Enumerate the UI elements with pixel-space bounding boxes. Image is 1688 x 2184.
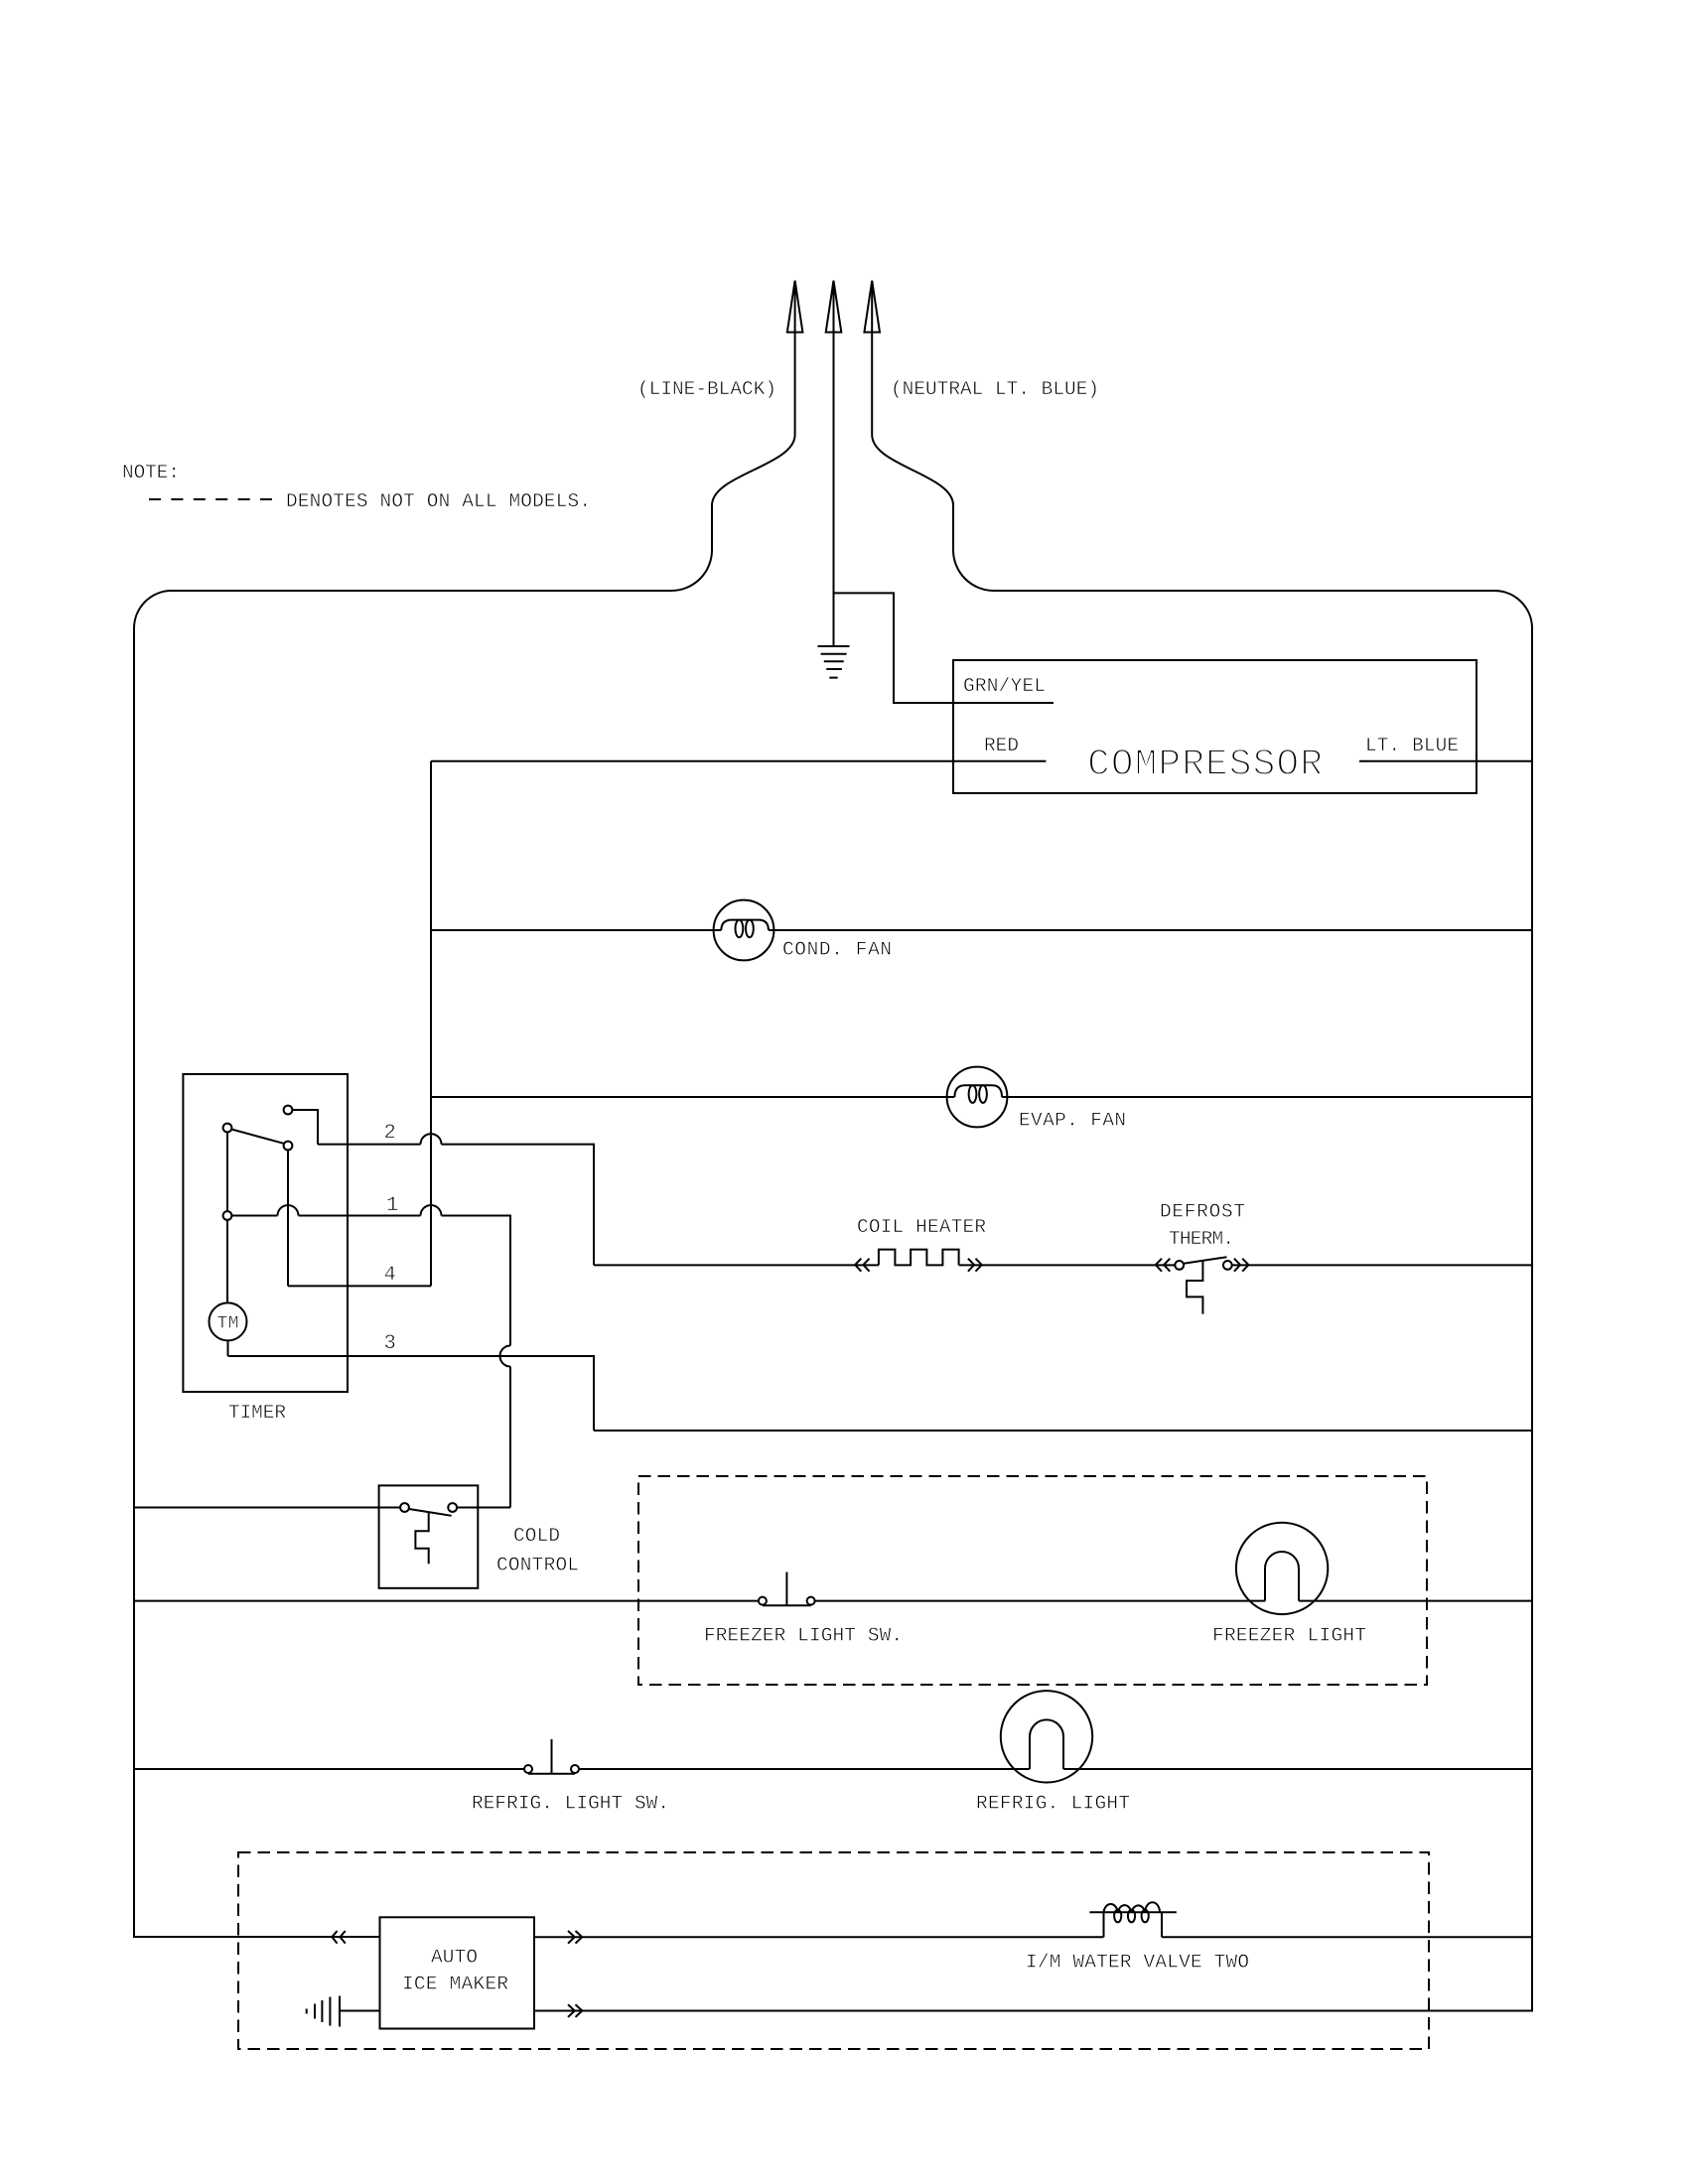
svg-text:COMPRESSOR: COMPRESSOR xyxy=(1087,744,1323,786)
svg-text:FREEZER LIGHT SW.: FREEZER LIGHT SW. xyxy=(704,1624,903,1646)
connector chevrons right xyxy=(968,1259,982,1272)
terminal left lower xyxy=(223,1211,232,1220)
wire red vertical xyxy=(430,761,432,1287)
cold control actuator xyxy=(415,1512,428,1564)
wire line-black cord xyxy=(671,281,795,591)
svg-text:REFRIG. LIGHT SW.: REFRIG. LIGHT SW. xyxy=(472,1792,669,1814)
arrowhead neutral xyxy=(864,281,880,333)
svg-text:(LINE-BLACK): (LINE-BLACK) xyxy=(637,378,776,400)
wire outer border left (line) xyxy=(134,591,671,1937)
wire outer border right (neutral bus) xyxy=(534,591,1532,2011)
wire heater row xyxy=(594,1264,1532,1266)
svg-text:COND. FAN: COND. FAN xyxy=(782,939,892,961)
wire freezer light row xyxy=(134,1600,1532,1602)
contact lower xyxy=(284,1142,293,1151)
arrowhead ground xyxy=(826,281,842,333)
dashed box freezer (not on all models) xyxy=(638,1476,1427,1685)
svg-text:NOTE:: NOTE: xyxy=(122,462,180,483)
cold control terminal right xyxy=(448,1503,457,1512)
motor EVAP. FAN xyxy=(947,1067,1008,1128)
wire contact down to wire 4 xyxy=(287,1150,289,1286)
svg-text:GRN/YEL: GRN/YEL xyxy=(963,675,1046,697)
wire refrig light row xyxy=(134,1768,1532,1770)
defrost therm actuator xyxy=(1187,1261,1202,1314)
wire ice maker ground xyxy=(340,2010,380,2012)
wire ice maker bottom out xyxy=(534,2010,1532,2012)
terminal left upper xyxy=(223,1124,232,1133)
hop wire1 over red vertical xyxy=(421,1205,442,1216)
switch arm timer xyxy=(231,1130,284,1144)
svg-text:LT. BLUE: LT. BLUE xyxy=(1365,735,1459,756)
wire 2 xyxy=(318,1145,594,1266)
freezer light sw contact left xyxy=(759,1597,767,1605)
wire grn/yel branch xyxy=(834,593,1055,703)
wire terminal top to wire 2 xyxy=(292,1110,318,1145)
compressor box xyxy=(953,660,1477,793)
svg-text:DEFROST: DEFROST xyxy=(1160,1201,1245,1223)
freezer light sw arm xyxy=(763,1604,811,1606)
svg-text:COIL HEATER: COIL HEATER xyxy=(857,1216,986,1238)
defrost therm contact right xyxy=(1223,1261,1232,1270)
motor COND. FAN xyxy=(714,900,774,961)
svg-text:COLD: COLD xyxy=(513,1525,560,1547)
ground xyxy=(818,646,850,678)
svg-text:3: 3 xyxy=(384,1332,396,1355)
svg-text:1: 1 xyxy=(386,1194,398,1217)
wire neutral cord xyxy=(872,281,994,591)
wire lt blue terminal xyxy=(1359,760,1532,762)
svg-text:FREEZER LIGHT: FREEZER LIGHT xyxy=(1212,1624,1366,1646)
svg-text:AUTO: AUTO xyxy=(431,1946,478,1968)
terminal top xyxy=(284,1106,293,1115)
hop wire1-vertical over wire 3 xyxy=(500,1346,511,1367)
connector chevrons ice maker out top xyxy=(568,1931,582,1944)
dashed legend line xyxy=(149,498,272,500)
connector chevrons defrost left xyxy=(1156,1259,1170,1272)
wire 3 xyxy=(228,1356,595,1431)
lamp FREEZER LIGHT xyxy=(1236,1523,1328,1614)
wire evap fan row xyxy=(431,1096,1532,1098)
svg-text:ICE MAKER: ICE MAKER xyxy=(402,1973,508,1994)
wire cold control row left xyxy=(134,1507,400,1509)
wire defrost return row xyxy=(594,1430,1532,1432)
defrost therm arm xyxy=(1184,1257,1226,1264)
svg-text:THERM.: THERM. xyxy=(1169,1228,1234,1250)
connector chevrons left xyxy=(855,1259,870,1272)
heater element COIL HEATER xyxy=(879,1250,959,1266)
connector chevrons ice maker in xyxy=(332,1931,346,1944)
hop wire1 over contact vertical xyxy=(278,1205,299,1216)
hop wire2 over red vertical xyxy=(421,1134,442,1145)
freezer light sw contact right xyxy=(807,1597,815,1605)
wire cold control to wire1 vertical xyxy=(457,1507,510,1509)
svg-text:EVAP. FAN: EVAP. FAN xyxy=(1019,1109,1126,1131)
wire TM to wire 3 xyxy=(227,1340,229,1356)
svg-text:I/M WATER VALVE TWO: I/M WATER VALVE TWO xyxy=(1026,1951,1249,1973)
ground ice maker xyxy=(307,1996,340,2027)
svg-text:RED: RED xyxy=(984,735,1019,756)
wire left terminals vertical xyxy=(226,1132,228,1211)
svg-text:2: 2 xyxy=(384,1122,396,1145)
wire 4 xyxy=(288,1285,431,1287)
defrost therm contact left xyxy=(1175,1261,1184,1270)
refrig light sw contact right xyxy=(571,1765,579,1773)
solenoid I/M WATER VALVE TWO xyxy=(1089,1912,1176,1937)
svg-text:4: 4 xyxy=(384,1264,396,1287)
svg-text:CONTROL: CONTROL xyxy=(496,1555,579,1576)
svg-text:TM: TM xyxy=(217,1314,239,1334)
arrowhead line-black xyxy=(787,281,803,333)
svg-text:DENOTES NOT ON ALL MODELS.: DENOTES NOT ON ALL MODELS. xyxy=(286,490,591,512)
timer motor TM xyxy=(210,1302,247,1340)
connector chevrons ice maker out bottom xyxy=(568,2004,582,2017)
refrig light sw contact left xyxy=(524,1765,532,1773)
cold control box xyxy=(379,1485,479,1587)
refrig light sw arm xyxy=(528,1773,575,1775)
svg-text:(NEUTRAL LT. BLUE): (NEUTRAL LT. BLUE) xyxy=(891,378,1099,400)
wire ground cord xyxy=(833,281,835,646)
lamp REFRIG. LIGHT xyxy=(1001,1691,1092,1782)
wire ice maker top right xyxy=(534,1936,1532,1938)
refrig light sw actuator xyxy=(551,1739,553,1774)
connector chevrons defrost right xyxy=(1234,1259,1249,1272)
wire cond fan row xyxy=(431,929,1532,931)
svg-text:REFRIG. LIGHT: REFRIG. LIGHT xyxy=(976,1792,1130,1814)
cold control terminal left xyxy=(400,1503,409,1512)
wire to TM xyxy=(226,1220,228,1303)
wire red terminal xyxy=(431,760,1046,762)
dashed box ice maker (not on all models) xyxy=(238,1852,1429,2049)
svg-text:TIMER: TIMER xyxy=(228,1402,286,1424)
timer box xyxy=(183,1074,348,1392)
wire 1 xyxy=(231,1216,510,1508)
freezer light sw actuator xyxy=(785,1572,787,1606)
cold control arm xyxy=(409,1509,452,1516)
auto ice maker box xyxy=(380,1917,535,2028)
